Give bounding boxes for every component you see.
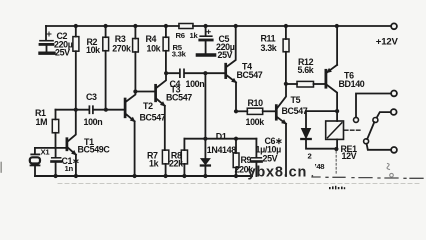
svg-text:T5: T5: [291, 95, 301, 105]
svg-text:1n: 1n: [65, 164, 74, 173]
node junction (R4 bottom / T2 collector): [133, 89, 137, 93]
wire T6 collector to D2 branch: [306, 110, 337, 112]
node junction dots (R2,R3 bottoms): [74, 108, 108, 112]
svg-text:5.6k: 5.6k: [298, 65, 314, 75]
svg-text:270k: 270k: [112, 43, 131, 53]
wire T1 collector node to C3 and T2 base: [56, 109, 125, 111]
svg-text:1k: 1k: [149, 159, 159, 169]
capacitor C3: [84, 92, 103, 127]
node junction (R11/R12/T5 collector): [284, 82, 288, 86]
svg-text:R9: R9: [241, 155, 252, 165]
terminal +12V: [376, 23, 399, 47]
ground (C2): [40, 52, 54, 55]
capacitor C6: [252, 136, 283, 176]
svg-text:R10: R10: [248, 98, 264, 108]
diode D1: [201, 73, 236, 176]
svg-text:T2: T2: [143, 101, 153, 111]
svg-text:BC547: BC547: [166, 93, 192, 103]
svg-text:.: .: [311, 169, 314, 180]
microphone X1: [30, 148, 67, 176]
artifact ink mark bottom center: [329, 186, 345, 190]
transistor T2: [125, 92, 166, 177]
svg-text:R4: R4: [146, 34, 157, 44]
wire T2 collector to T3 base: [135, 91, 155, 93]
wire dashed mechanical link: [345, 129, 363, 131]
svg-text:R11: R11: [261, 33, 276, 43]
diode D2: [301, 111, 336, 171]
svg-text:100n: 100n: [186, 79, 205, 89]
svg-text:25V: 25V: [218, 50, 233, 60]
artifact left edge mark: [0, 163, 2, 173]
wire relay to ground (faint): [335, 152, 337, 175]
artifact marks bottom right: [387, 164, 393, 178]
node junction dots on top rail: [74, 24, 339, 28]
svg-text:BC547: BC547: [282, 106, 308, 116]
transistor T5: [276, 84, 307, 176]
node junction dots (C4 row): [164, 71, 207, 75]
resistor R1: [35, 108, 59, 148]
resistor R7: [147, 150, 169, 176]
resistor R12: [286, 57, 326, 87]
svg-text:C3: C3: [86, 92, 97, 102]
node junction dots on ground rail: [54, 174, 239, 178]
resistor R8: [169, 139, 188, 176]
svg-text:’48: ’48: [315, 162, 326, 171]
transistor T6: [326, 26, 365, 111]
svg-text:3.3k: 3.3k: [261, 43, 277, 53]
relay contact NO throw: [373, 112, 391, 122]
svg-text:ybx8.cn: ybx8.cn: [248, 164, 308, 180]
node junction dots on bus: [203, 137, 238, 141]
wire common pole to terminal: [367, 144, 391, 150]
wire ground rail right section (degraded dash-dot): [312, 177, 423, 178]
svg-text:D1: D1: [216, 132, 227, 142]
capacitor C5: [200, 26, 235, 60]
svg-text:1M: 1M: [36, 117, 48, 127]
relay switch arm: [364, 122, 375, 144]
svg-text:BC549C: BC549C: [78, 144, 111, 154]
wire top supply rail: [46, 25, 391, 27]
svg-text:25V: 25V: [55, 48, 70, 58]
capacitor C2: [40, 26, 73, 58]
node junction (T4 emitter / R10): [234, 109, 238, 113]
relay contact NC throw: [354, 94, 392, 123]
resistor R11: [261, 26, 290, 84]
transistor T4: [226, 26, 263, 111]
svg-text:100n: 100n: [84, 117, 103, 127]
svg-text:1N4148: 1N4148: [207, 145, 236, 155]
resistor R2: [73, 26, 100, 108]
resistor R10: [236, 98, 276, 127]
svg-text:1k: 1k: [190, 31, 199, 40]
terminal common: [391, 147, 397, 153]
resistor R9: [233, 139, 253, 176]
svg-text:10k: 10k: [147, 44, 161, 54]
wire bottom ground rail: [35, 175, 252, 177]
terminal contact A: [391, 91, 397, 97]
svg-text:25V: 25V: [263, 153, 278, 163]
ground (C5): [197, 53, 214, 56]
node junction (relay top): [335, 109, 339, 113]
svg-text:10k: 10k: [86, 45, 100, 55]
resistor R6: [176, 24, 199, 41]
wire bus R8/D1/R9/C6: [184, 138, 256, 140]
terminal contact B: [391, 109, 397, 115]
capacitor C1: [52, 148, 80, 176]
watermark ybx8.cn: [248, 164, 315, 180]
svg-text:BC547: BC547: [237, 70, 263, 80]
svg-text:12V: 12V: [342, 151, 357, 161]
svg-text:2: 2: [308, 152, 312, 161]
svg-text:100k: 100k: [246, 117, 265, 127]
resistor R4: [133, 26, 161, 90]
relay RE1 coil: [326, 111, 357, 161]
svg-text:22k: 22k: [169, 159, 183, 169]
svg-text:R6: R6: [176, 31, 185, 40]
node junction (relay bottom / D2): [334, 147, 338, 151]
transistor T3: [156, 73, 193, 150]
capacitor C4: [166, 69, 226, 89]
artifact faint scan line bottom: [58, 183, 420, 185]
svg-text:BC547: BC547: [140, 112, 166, 122]
svg-text:BD140: BD140: [339, 79, 365, 89]
transistor T1: [67, 110, 110, 176]
svg-text:3.3k: 3.3k: [172, 50, 187, 59]
svg-text:+12V: +12V: [376, 37, 399, 48]
resistor R3: [103, 26, 131, 108]
resistor R5: [163, 26, 186, 72]
svg-text:C4: C4: [170, 79, 181, 89]
svg-text:X1: X1: [41, 148, 51, 157]
